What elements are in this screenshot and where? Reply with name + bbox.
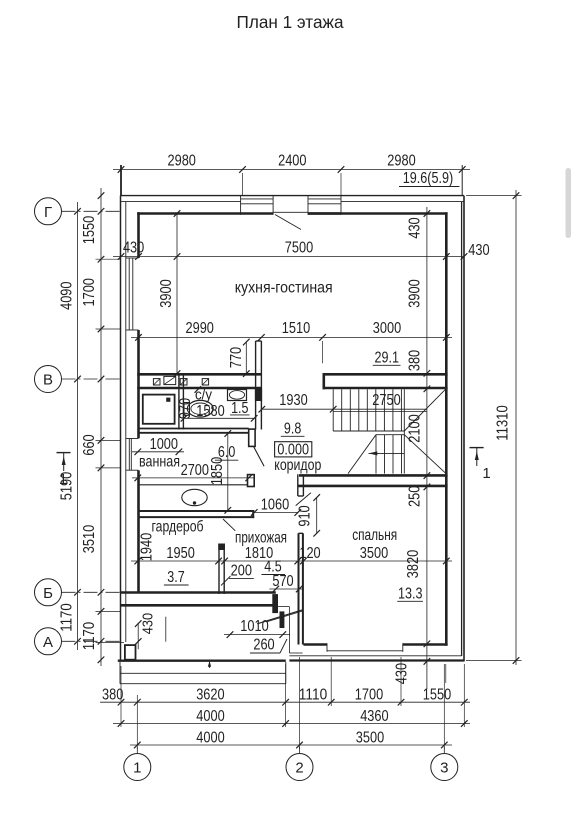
svg-text:430: 430 [140, 613, 157, 634]
front door jamb [272, 594, 278, 613]
svg-text:3620: 3620 [196, 687, 224, 704]
wall B band [121, 591, 276, 594]
svg-text:1: 1 [133, 760, 141, 777]
bottom row1 380 3620 1110 1700 1550 [100, 701, 470, 703]
dim 1850 line [227, 434, 229, 511]
svg-text:1010: 1010 [240, 618, 268, 635]
wardrobe top wall band [139, 510, 255, 512]
extension 1510/3000 [322, 341, 324, 363]
section mark 1 left [57, 452, 71, 454]
axis crossing ticks inner line [98, 208, 105, 215]
dim 770 [245, 342, 247, 374]
left inner dim line [100, 188, 102, 666]
svg-text:1060: 1060 [261, 497, 289, 514]
bottom wall outer thick [289, 659, 464, 661]
top wall inner thick [137, 212, 240, 215]
dim row 1950 1810 120 3500 [131, 560, 452, 562]
svg-text:9.8: 9.8 [284, 421, 301, 438]
svg-text:770: 770 [228, 347, 245, 368]
svg-text:3900: 3900 [407, 279, 424, 307]
closet line [165, 617, 167, 642]
axis В leader [62, 378, 123, 380]
axis Г leader [62, 210, 123, 212]
svg-text:2400: 2400 [278, 153, 306, 170]
axis 1 leader [136, 747, 138, 754]
svg-text:1930: 1930 [279, 392, 307, 409]
dim 3900 left line [176, 214, 178, 374]
svg-text:2980: 2980 [168, 153, 196, 170]
svg-text:2980: 2980 [387, 153, 415, 170]
wall band B stair segment [323, 373, 448, 376]
svg-text:3500: 3500 [360, 545, 388, 562]
su right wall stub [255, 341, 257, 430]
wall band B left top line [137, 373, 261, 376]
svg-text:3510: 3510 [81, 525, 98, 553]
svg-text:3820: 3820 [405, 550, 422, 578]
axis circle В [35, 366, 62, 393]
svg-text:0.000: 0.000 [277, 441, 309, 458]
svg-text:250: 250 [407, 486, 424, 507]
svg-text:1550: 1550 [81, 216, 98, 244]
svg-text:570: 570 [272, 573, 293, 590]
svg-text:7500: 7500 [285, 240, 313, 257]
svg-text:1810: 1810 [245, 545, 273, 562]
dim 570 [269, 588, 304, 590]
svg-text:970: 970 [177, 398, 194, 419]
axis circle 1 [124, 754, 151, 781]
stair winder diagonal lower [404, 435, 446, 474]
bedroom top wall [298, 485, 448, 488]
bedroom wall left cap [297, 474, 299, 496]
scrollbar thumb [566, 168, 572, 238]
bedroom partition wall [298, 533, 300, 644]
bedroom window [326, 643, 328, 652]
svg-text:380: 380 [407, 350, 424, 371]
kitchen window left wall [126, 257, 139, 259]
svg-text:3900: 3900 [158, 279, 175, 307]
right wall inner thick [445, 212, 448, 646]
svg-text:430: 430 [394, 663, 411, 684]
top wall mid line [121, 201, 241, 203]
dim 11310 [515, 190, 517, 665]
svg-text:4090: 4090 [59, 281, 76, 309]
svg-text:1: 1 [482, 465, 490, 482]
dim row 430 7500 430 [113, 256, 464, 258]
svg-text:1110: 1110 [299, 687, 327, 704]
svg-text:1940: 1940 [139, 533, 156, 561]
toilet [187, 400, 213, 417]
svg-text:1950: 1950 [166, 545, 194, 562]
svg-text:200: 200 [231, 563, 252, 580]
svg-text:кухня-гостиная: кухня-гостиная [235, 280, 333, 297]
left wall outer line [120, 196, 122, 661]
svg-text:3000: 3000 [373, 320, 401, 337]
wall band B left bottom line [137, 387, 261, 390]
entrance arrow [209, 661, 211, 668]
entrance outline [277, 606, 289, 608]
top french door opening [273, 211, 308, 213]
porch edge thick [118, 660, 286, 662]
svg-text:1850: 1850 [209, 457, 226, 485]
section mark 1 right [470, 447, 484, 449]
svg-text:4360: 4360 [360, 708, 388, 725]
svg-text:коридор: коридор [274, 457, 321, 474]
svg-text:4000: 4000 [196, 729, 224, 746]
svg-text:1170: 1170 [81, 622, 98, 650]
su door leaf [254, 446, 265, 466]
svg-text:2750: 2750 [372, 392, 400, 409]
top dim line [113, 169, 470, 171]
dim row 2990 1510 3000 [131, 336, 452, 338]
level mark 0.000 [275, 442, 312, 457]
bottom row2 4000 4360 [113, 723, 470, 725]
axis circle 2 [286, 754, 313, 781]
top extension lines [120, 165, 122, 196]
vanity counter [139, 484, 248, 486]
axis circle 3 [431, 754, 458, 781]
svg-text:Г: Г [44, 204, 52, 221]
left extension lines [96, 258, 121, 260]
right chain line [426, 207, 428, 689]
vent boxes [153, 379, 160, 385]
axis circle Б [35, 579, 62, 606]
svg-text:План 1 этажа: План 1 этажа [237, 12, 344, 32]
sink [228, 390, 247, 401]
svg-text:ванная: ванная [139, 454, 180, 471]
dim 910 [316, 498, 318, 534]
svg-text:29.1: 29.1 [375, 350, 400, 367]
svg-text:1700: 1700 [81, 278, 98, 306]
partition shower/su [178, 374, 180, 429]
svg-text:430: 430 [468, 242, 489, 259]
svg-text:3.7: 3.7 [167, 569, 184, 586]
dims 1930 2750 line [262, 408, 427, 410]
axis А leader [62, 640, 123, 642]
svg-text:В: В [43, 372, 53, 389]
front door leaf [257, 610, 302, 624]
axis circle А [35, 628, 62, 655]
stair flight edge [403, 389, 405, 473]
svg-text:1170: 1170 [59, 603, 76, 631]
left wall inner thick [137, 212, 140, 258]
svg-text:2700: 2700 [181, 462, 209, 479]
svg-text:260: 260 [253, 637, 274, 654]
porch steps [120, 672, 286, 674]
su bottom wall [139, 428, 249, 430]
svg-text:А: А [43, 634, 53, 651]
svg-text:спальня: спальня [352, 527, 397, 544]
bathroom window left wall [126, 438, 139, 440]
svg-text:прихожая: прихожая [235, 530, 287, 547]
bottom row3 4000 3500 [130, 744, 452, 746]
left outer dim line [77, 202, 79, 650]
axis Б leader [62, 591, 123, 593]
french door leader [275, 215, 301, 230]
right wall outer lines [463, 196, 465, 662]
stair walk line down arrow [369, 452, 405, 454]
top window left [241, 198, 274, 200]
bottom wall inner thick [303, 643, 327, 646]
tick below band [195, 386, 202, 393]
svg-text:3: 3 [440, 760, 448, 777]
front door second leaf bar [280, 611, 285, 628]
wash basin [182, 489, 207, 505]
svg-text:430: 430 [407, 217, 424, 238]
top wall outer line [121, 195, 465, 197]
dim 1000 [132, 451, 184, 453]
shower cabin [143, 395, 175, 424]
svg-text:2: 2 [295, 760, 303, 777]
axis 2 leader [299, 747, 301, 754]
stairwell bottom wall [299, 474, 448, 477]
axis circle Г [35, 198, 62, 225]
svg-text:1000: 1000 [150, 436, 178, 453]
door jamb su [249, 429, 255, 446]
svg-text:1510: 1510 [282, 320, 310, 337]
svg-text:1580: 1580 [196, 403, 224, 420]
svg-text:19.6(5.9): 19.6(5.9) [403, 170, 454, 187]
porch column [125, 645, 136, 660]
svg-text:1: 1 [59, 471, 67, 488]
svg-text:380: 380 [102, 687, 123, 704]
dim 1010 [224, 634, 290, 636]
svg-text:3500: 3500 [356, 729, 384, 746]
dim 1580 [184, 417, 254, 419]
top window right [308, 198, 341, 200]
svg-text:13.3: 13.3 [398, 586, 423, 603]
door jamb hallway [248, 475, 255, 487]
svg-text:гардероб: гардероб [152, 519, 204, 536]
svg-text:660: 660 [81, 434, 98, 455]
svg-text:1700: 1700 [355, 687, 383, 704]
partition wardrobe/hallway [218, 544, 220, 595]
svg-text:4000: 4000 [196, 708, 224, 725]
stair upper flight treads [332, 389, 334, 431]
svg-text:910: 910 [297, 505, 314, 526]
svg-text:2990: 2990 [186, 320, 214, 337]
stair lower flight [376, 434, 404, 436]
bottom extension lines [120, 666, 122, 727]
svg-text:1550: 1550 [423, 687, 451, 704]
dim 430 entrance [137, 623, 139, 649]
left wall mid line [125, 202, 127, 642]
svg-text:2100: 2100 [407, 414, 424, 442]
axis 3 leader [443, 747, 445, 754]
dim 2700 [132, 477, 254, 479]
svg-text:Б: Б [43, 585, 53, 602]
stair winder diagonal upper [404, 389, 446, 431]
dim 1060 [254, 512, 298, 514]
svg-text:11310: 11310 [495, 405, 512, 441]
